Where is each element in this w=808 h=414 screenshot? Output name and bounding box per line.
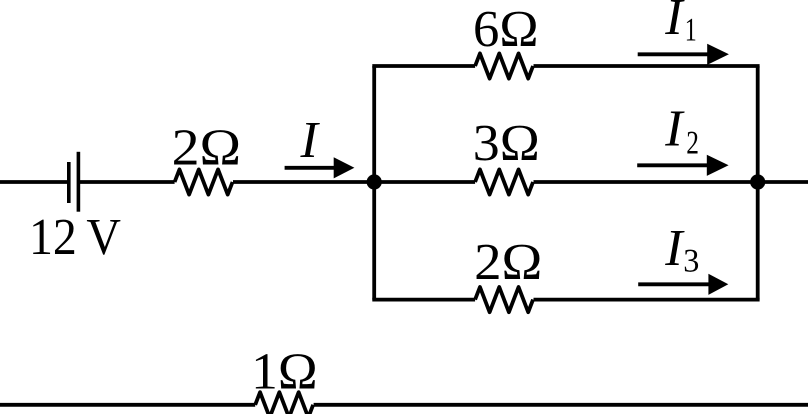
arrow I3 current direction (638, 274, 728, 295)
label I3 branch current (664, 220, 699, 280)
svg-text:I: I (664, 101, 685, 158)
svg-text:I: I (300, 112, 321, 169)
svg-text:I: I (664, 220, 685, 277)
resistor R 2ohm series zigzag (175, 169, 233, 194)
arrow I2 current direction (637, 155, 728, 176)
wire: middle branch right segment to node B (534, 180, 758, 184)
svg-text:2Ω: 2Ω (172, 119, 242, 176)
wire: top branch left segment (372, 64, 475, 68)
label 2 ohm branch resistor value (474, 234, 542, 291)
wire: bottom return line right segment (314, 403, 808, 407)
label 12 V battery value (29, 209, 121, 266)
wire: bottom branch left segment (372, 298, 475, 302)
svg-text:1: 1 (685, 13, 697, 49)
battery V1 (long positive plate) (77, 152, 81, 212)
arrow I current direction (285, 157, 355, 178)
svg-text:12 V: 12 V (29, 209, 121, 266)
label I current into node (300, 112, 321, 169)
svg-text:1Ω: 1Ω (251, 344, 318, 401)
svg-text:2Ω: 2Ω (474, 234, 542, 291)
node A junction dot left (367, 174, 382, 189)
svg-text:3: 3 (683, 244, 699, 280)
svg-text:2: 2 (686, 125, 699, 161)
battery V1 (short negative plate) (67, 162, 71, 203)
svg-text:I: I (664, 0, 685, 46)
wire: middle branch left segment from node A (374, 180, 475, 184)
wire: left vertical bus of parallel branches (372, 66, 376, 300)
label 2 ohm series resistor value (172, 119, 242, 176)
label I1 branch current (664, 0, 697, 49)
resistor R2 3ohm zigzag (475, 169, 533, 194)
node B junction dot right (750, 174, 765, 189)
wire: right vertical bus of parallel branches (756, 66, 760, 300)
resistor R3 2ohm zigzag (475, 287, 533, 312)
wire: top branch right segment (534, 64, 760, 68)
wire: bottom branch right segment (534, 298, 760, 302)
label 6 ohm resistor value (473, 1, 539, 58)
wire: resistor 2ohm to node A (233, 180, 374, 184)
wire: battery to resistor 2ohm (78, 180, 174, 184)
wire: output lead from node B to right edge (758, 180, 808, 184)
label I2 branch current (664, 101, 699, 162)
resistor R1 6ohm zigzag (475, 53, 533, 78)
label 3 ohm resistor value (473, 115, 540, 172)
svg-text:6Ω: 6Ω (473, 1, 539, 58)
wire: left lead from edge to battery (0, 180, 67, 184)
svg-text:3Ω: 3Ω (473, 115, 540, 172)
wire: bottom return line left segment (0, 403, 255, 407)
label 1 ohm resistor value (251, 344, 318, 401)
arrow I1 current direction (638, 44, 729, 65)
resistor R4 1ohm zigzag (255, 392, 313, 414)
